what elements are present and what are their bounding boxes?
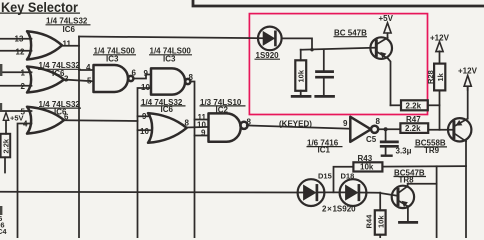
resistor 10k (pink box) <box>292 60 310 96</box>
svg-text:1k: 1k <box>436 72 445 81</box>
power arrow +5V <box>384 23 391 33</box>
label 1/4 74LS32 IC6 (OR4) <box>141 98 186 114</box>
wire bottom bus left <box>0 191 305 194</box>
svg-text:2: 2 <box>21 82 26 91</box>
label 1S920 <box>255 51 281 60</box>
wire top horizontal to diode <box>79 37 265 39</box>
wire input pin2 <box>0 85 32 87</box>
border frame top-right <box>193 0 484 6</box>
wire 2.2k left <box>391 104 402 106</box>
wire TR9 collector riser <box>465 141 467 238</box>
svg-text:IC6: IC6 <box>161 105 174 114</box>
wire input pin12 <box>0 50 32 52</box>
wire bus between D15 and D18 <box>318 191 347 193</box>
transistor BC547B (pink box) <box>370 37 392 59</box>
svg-text:+5V: +5V <box>10 113 24 122</box>
svg-text:2.2k: 2.2k <box>405 124 421 133</box>
label BC558B TR9 <box>415 139 448 155</box>
svg-text:10k: 10k <box>360 163 374 172</box>
svg-text:10k: 10k <box>377 215 386 228</box>
wire NAND2 pin10 riser x137.5 <box>138 88 152 238</box>
svg-text:6: 6 <box>64 113 69 122</box>
wire R43 right to collector node <box>382 165 466 168</box>
svg-text:6: 6 <box>132 69 137 78</box>
svg-text:4: 4 <box>23 120 28 129</box>
diode D18 <box>340 179 367 206</box>
label 1/4 74LS32 IC6 (OR1) <box>46 17 91 34</box>
svg-text:13: 13 <box>15 34 24 43</box>
svg-text:R44: R44 <box>364 214 373 229</box>
scan smudge marks left edge <box>0 64 2 76</box>
svg-text:8: 8 <box>185 119 190 128</box>
wire R28 bottom to base node <box>439 90 441 129</box>
svg-text:IC2: IC2 <box>216 105 229 114</box>
wire TR8 emitter down <box>407 206 409 221</box>
transistor TR8 BC547B <box>392 186 417 223</box>
svg-text:9: 9 <box>144 69 149 78</box>
wire +5V stem to pink transistor <box>387 33 389 38</box>
resistor R28 1k <box>434 64 445 91</box>
wire R28 top stem <box>439 51 441 63</box>
svg-text:3: 3 <box>64 75 69 84</box>
wire input pin13 <box>0 38 32 40</box>
label 1/4 74LS00 IC3 (NAND1) <box>93 47 136 64</box>
resistor 2.2k left rail <box>1 134 11 158</box>
wire NAND3 pin11 <box>195 119 209 121</box>
title Key Selector <box>0 0 80 15</box>
svg-text:+12V: +12V <box>430 34 450 43</box>
wire riser x436.6 <box>436 166 438 238</box>
labels and pin numbers <box>15 17 381 155</box>
wire NAND2 out riser x194.5 <box>190 82 194 239</box>
svg-text:1: 1 <box>21 69 26 78</box>
wire input pin5 <box>0 110 32 112</box>
highlight box (pink) <box>249 14 427 115</box>
svg-text:9: 9 <box>201 128 206 137</box>
capacitor (pink box) <box>316 72 334 97</box>
svg-text:TR9: TR9 <box>424 146 440 155</box>
capacitor C5 <box>381 142 397 156</box>
nand-gate IC3b <box>151 68 190 94</box>
label 1/6 7416 IC1 <box>307 138 343 154</box>
svg-text:3.3μ: 3.3μ <box>396 146 412 155</box>
diode 1S920 <box>258 27 282 51</box>
svg-text:9: 9 <box>343 119 348 128</box>
inverter IC1 7416 <box>350 117 378 142</box>
wire OR3 output 6 <box>64 119 138 122</box>
nand-gate IC3a <box>94 65 134 92</box>
wire OR1 output 11 <box>62 45 79 47</box>
resistor R43 10k <box>353 162 382 171</box>
wire +12V left arrow stem <box>467 87 469 90</box>
label BC 547B (pink) <box>334 29 368 38</box>
wire OR4 pin9 <box>138 115 151 117</box>
svg-text:5: 5 <box>87 77 92 86</box>
svg-text:8: 8 <box>376 117 381 126</box>
svg-text:(KEYED): (KEYED) <box>279 120 312 129</box>
wire input pin1 <box>0 71 32 73</box>
wire 10k top stub <box>300 50 302 61</box>
svg-text:TR8: TR8 <box>399 175 415 184</box>
svg-text:D18: D18 <box>341 172 355 181</box>
wire C5 stub bottom <box>385 147 387 155</box>
wire vertical bus x79 <box>78 37 80 239</box>
wire bus D18 to TR8 base <box>360 193 399 196</box>
transistor TR9 BC558B (PNP) <box>448 118 471 141</box>
label 1/4 74LS00 IC3 (NAND2) <box>149 47 192 64</box>
wire junction D15-D18 up to R43 <box>334 167 354 193</box>
svg-text:R28: R28 <box>426 70 435 84</box>
svg-text:12: 12 <box>16 48 25 57</box>
wire node to pink transistor base <box>301 48 377 50</box>
svg-text:10: 10 <box>141 83 150 92</box>
or-gate IC6a U-OR1 <box>27 31 62 59</box>
wire 2.2k right <box>428 104 440 106</box>
or-gate IC6c U-OR3 <box>27 107 64 134</box>
svg-text:IC1: IC1 <box>318 146 331 155</box>
wire diode out to node <box>281 38 312 49</box>
wire NAND1 out to NAND2 pin9 <box>133 75 151 79</box>
wire KEYED net <box>247 125 350 128</box>
svg-text:+5V: +5V <box>379 14 394 23</box>
wire TR9 emitter riser <box>467 87 469 119</box>
svg-text:IC3: IC3 <box>106 55 119 64</box>
wire OR3 pin4 down <box>18 124 32 239</box>
resistor R44 10k <box>375 210 386 238</box>
wire NAND3 pin9 <box>195 135 209 137</box>
power arrow +12V second <box>464 75 471 86</box>
power arrow +5V left rail <box>3 113 8 121</box>
nand-gate IC2 (3-input 74LS10) <box>209 113 248 141</box>
wire TR8 collector <box>408 184 437 186</box>
or-gate IC6d U-OR4 <box>148 113 187 143</box>
wire OR2 out to NAND1 pin5 <box>64 80 94 82</box>
wire OR4 out to NAND3 pin10 <box>187 126 209 129</box>
svg-text:8: 8 <box>189 73 194 82</box>
svg-text:2.2k: 2.2k <box>1 138 10 153</box>
wire pink transistor emitter down <box>388 58 391 105</box>
svg-text:+12V: +12V <box>458 67 478 76</box>
label fragment 1/6 7416 IC4 cut at left edge <box>0 214 7 236</box>
junction node diode RC <box>310 48 313 51</box>
wire inverter out to R47 <box>378 128 400 130</box>
svg-text:C5: C5 <box>366 135 377 144</box>
wire +5V left rail stem <box>5 121 7 134</box>
svg-text:9: 9 <box>142 112 147 121</box>
junction node at inverter output <box>384 127 388 131</box>
svg-text:4: 4 <box>86 63 91 72</box>
svg-text:IC6: IC6 <box>63 25 76 34</box>
wire 10k bottom stub <box>300 91 302 96</box>
wire TR9 base <box>428 129 453 131</box>
svg-text:D15: D15 <box>318 172 332 181</box>
wire cap stub bottom <box>323 78 325 95</box>
svg-text:8: 8 <box>247 118 252 127</box>
label BC547B TR8 <box>394 168 427 184</box>
label 1/3 74LS10 IC2 <box>200 98 246 115</box>
svg-text:10k: 10k <box>297 69 306 82</box>
wire C5 stub top <box>385 129 387 141</box>
svg-text:C4: C4 <box>0 227 7 236</box>
or-gate IC6b U-OR2 <box>27 67 64 93</box>
svg-text:11: 11 <box>63 40 72 49</box>
wire cap stub top <box>323 49 325 70</box>
wire R44 stub <box>379 193 381 211</box>
label 1/4 74LS32 IC6 (OR3) <box>38 100 81 117</box>
svg-text:2.2k: 2.2k <box>406 101 422 110</box>
resistor 2.2k emitter (pink box) <box>401 100 428 110</box>
svg-text:R47: R47 <box>406 115 421 124</box>
resistor R47 2.2k <box>400 123 428 133</box>
wire OR4 pin10 <box>138 129 151 131</box>
power arrow +12V first <box>436 42 443 52</box>
svg-text:2 × 1S920: 2 × 1S920 <box>322 205 356 214</box>
diode D15 <box>298 179 325 206</box>
svg-text:IC3: IC3 <box>163 55 176 64</box>
wire left 2.2k bottom stub <box>4 157 6 172</box>
label 1/4 74LS32 IC6 (OR2) <box>38 61 81 78</box>
svg-text:10: 10 <box>140 127 149 136</box>
wire NAND1 pin4 <box>79 69 94 71</box>
